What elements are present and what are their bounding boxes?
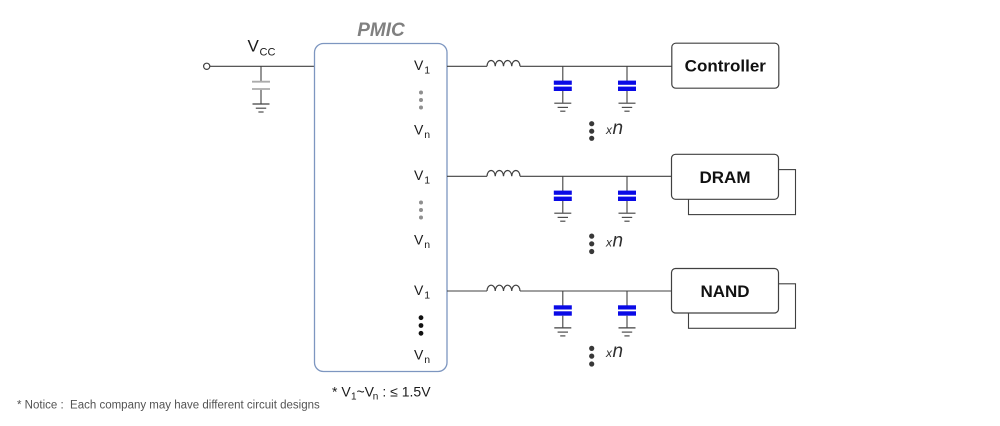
capacitor C2b lead — [626, 176, 628, 191]
wire input to PMIC — [210, 65, 315, 67]
svg-text:* V: * V — [332, 384, 351, 400]
pin label Vn row1 — [414, 122, 430, 142]
wire inductor to Controller — [520, 65, 672, 67]
note under PMIC — [332, 384, 431, 403]
pin label V1 row3 — [414, 282, 430, 302]
svg-text:V: V — [414, 232, 424, 248]
svg-text:: ≤ 1.5V: : ≤ 1.5V — [379, 384, 432, 400]
PMIC block — [315, 44, 448, 372]
dots row1 (gray) — [419, 91, 423, 110]
pin label Vn row2 — [414, 232, 430, 252]
capacitor C1b lead — [626, 66, 628, 81]
inductor L2 — [487, 170, 520, 176]
capacitor C-in plates — [252, 82, 270, 89]
label xn row2 — [605, 231, 623, 252]
capacitor C2a lead bottom — [562, 201, 564, 213]
NAND back box — [689, 284, 796, 329]
wire inductor to DRAM — [520, 175, 672, 177]
capacitor C-in lead top — [260, 66, 262, 81]
svg-text:V: V — [248, 37, 260, 56]
pin label V1 row1 — [414, 57, 430, 77]
svg-text:DRAM: DRAM — [700, 168, 751, 187]
inductor L3 — [487, 285, 520, 291]
capacitor C1a lead — [562, 66, 564, 81]
pin label Vn row3 — [414, 347, 430, 367]
capacitor C1a plates (blue) — [554, 81, 572, 91]
svg-text:n: n — [424, 239, 430, 251]
input terminal circle — [204, 63, 210, 69]
NAND box — [672, 269, 779, 314]
dots xn row3 — [589, 346, 594, 367]
svg-text:V: V — [414, 282, 424, 298]
ground C2a — [554, 213, 571, 221]
ground input — [253, 104, 270, 112]
svg-text:V: V — [414, 167, 424, 183]
capacitor C3b plates (blue) — [618, 305, 636, 315]
svg-text:1: 1 — [424, 175, 430, 187]
ground C3a — [554, 328, 571, 336]
capacitor C3a lead bottom — [562, 316, 564, 328]
inductor L1 — [487, 61, 520, 67]
ground C1a — [554, 103, 571, 111]
svg-text:n: n — [613, 231, 624, 252]
ground C2b — [619, 213, 636, 221]
wire PMIC to inductor row3 — [447, 290, 487, 292]
capacitor C1a lead bottom — [562, 91, 564, 103]
dots xn row1 — [589, 121, 594, 141]
label xn row3 — [605, 341, 623, 362]
svg-text:CC: CC — [260, 47, 276, 59]
dots row3 (black) — [419, 315, 424, 335]
svg-text:n: n — [424, 354, 430, 366]
svg-text:n: n — [424, 129, 430, 141]
capacitor C-in lead bottom — [260, 90, 262, 104]
pin label V1 row2 — [414, 167, 430, 187]
ground C3b — [619, 328, 636, 336]
dots row2 (gray) — [419, 201, 423, 220]
wire PMIC to inductor row1 — [447, 65, 487, 67]
ground C1b — [619, 103, 636, 111]
capacitor C3a plates (blue) — [554, 305, 572, 315]
capacitor C3b lead bottom — [626, 316, 628, 328]
capacitor C3a lead — [562, 291, 564, 306]
capacitor C2b lead bottom — [626, 201, 628, 213]
capacitor C1b plates (blue) — [618, 81, 636, 91]
svg-text:* Notice : Each company may h: * Notice : Each company may have differe… — [17, 400, 320, 412]
capacitor C3b lead — [626, 291, 628, 306]
svg-text:n: n — [613, 118, 624, 139]
dots xn row2 — [589, 234, 594, 255]
svg-text:1: 1 — [424, 290, 430, 302]
svg-text:Controller: Controller — [685, 57, 767, 76]
svg-text:n: n — [613, 341, 624, 362]
capacitor C2b plates (blue) — [618, 191, 636, 201]
wire PMIC to inductor row2 — [447, 175, 487, 177]
DRAM back box — [689, 170, 796, 215]
wire inductor to NAND — [520, 290, 672, 292]
capacitor C1b lead bottom — [626, 91, 628, 103]
Controller box — [672, 43, 779, 88]
svg-text:PMIC: PMIC — [357, 20, 405, 41]
svg-text:V: V — [414, 347, 424, 363]
svg-text:NAND: NAND — [700, 282, 749, 301]
svg-text:V: V — [414, 57, 424, 73]
svg-text:V: V — [414, 122, 424, 138]
DRAM box — [672, 154, 779, 199]
label xn row1 — [605, 118, 623, 139]
capacitor C2a plates (blue) — [554, 191, 572, 201]
svg-text:1: 1 — [424, 65, 430, 77]
capacitor C2a lead — [562, 176, 564, 191]
